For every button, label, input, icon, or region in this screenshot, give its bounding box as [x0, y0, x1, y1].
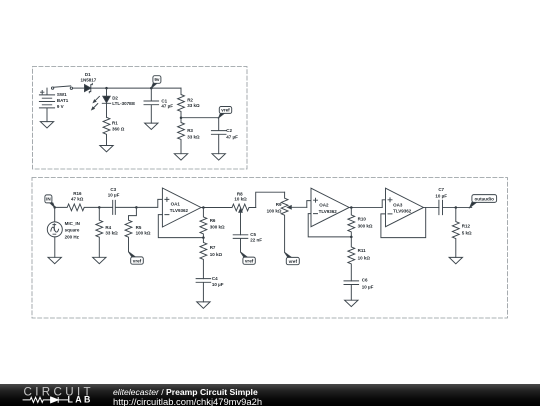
- svg-text:33 kΩ: 33 kΩ: [187, 103, 200, 108]
- svg-text:47 µF: 47 µF: [226, 134, 238, 139]
- potentiometer R9: [281, 192, 307, 252]
- ground (below C6): [345, 300, 358, 306]
- svg-text:10 µF: 10 µF: [212, 282, 224, 287]
- wire D1 to R2 top rail: [91, 87, 181, 89]
- svg-text:9 V: 9 V: [57, 104, 64, 109]
- svg-text:R10: R10: [358, 216, 367, 221]
- net flag vref (below R5): [129, 252, 144, 264]
- svg-text:10 µF: 10 µF: [435, 193, 447, 198]
- svg-text:R9: R9: [276, 202, 282, 207]
- net flag outaudio: [470, 195, 497, 208]
- capacitor C5: [233, 235, 248, 252]
- node junction (out / R12): [455, 206, 458, 209]
- resistor R10: [348, 207, 355, 236]
- node junction (R4 tap): [98, 206, 101, 209]
- dashed enclosure box (power supply section): [33, 67, 248, 170]
- svg-text:OA1: OA1: [171, 202, 181, 207]
- svg-text:C6: C6: [362, 277, 368, 282]
- diode D1 (schottky): [85, 83, 93, 92]
- voltage source MIC_IN: [47, 207, 62, 257]
- svg-text:vref: vref: [221, 108, 230, 113]
- resistor R6: [200, 208, 207, 238]
- net flag vref (below R9): [285, 252, 300, 264]
- resistor R4: [96, 207, 103, 257]
- svg-text:R2: R2: [187, 98, 193, 103]
- svg-text:LTL-307EE: LTL-307EE: [112, 101, 135, 106]
- svg-text:LAB: LAB: [68, 394, 93, 404]
- svg-text:100 kΩ: 100 kΩ: [136, 231, 151, 236]
- wire R8 to R9 top: [256, 192, 285, 207]
- svg-text:33 kΩ: 33 kΩ: [105, 231, 118, 236]
- capacitor C7: [439, 200, 472, 215]
- ground (below R12): [449, 257, 462, 263]
- node junction (OA2 out): [350, 206, 353, 209]
- resistor R3: [178, 118, 185, 154]
- svg-text:300 kΩ: 300 kΩ: [210, 225, 225, 230]
- ground (below C2): [212, 154, 225, 160]
- node junction (R10/R11): [350, 236, 353, 239]
- svg-text:R6: R6: [210, 218, 216, 223]
- svg-text:1N5817: 1N5817: [81, 77, 97, 82]
- svg-text:C7: C7: [438, 187, 444, 192]
- svg-text:100 kΩ: 100 kΩ: [267, 209, 282, 214]
- node junction (C1 / 9v tap): [150, 87, 153, 90]
- resistor R16: [55, 204, 100, 211]
- svg-text:R16: R16: [73, 191, 82, 196]
- svg-text:200 Hz: 200 Hz: [65, 234, 80, 239]
- svg-text:TLV9362: TLV9362: [170, 208, 189, 213]
- wire R9 wiper to OA2 + input: [307, 201, 311, 208]
- net flag IN: [45, 195, 55, 208]
- resistor R12: [452, 207, 459, 257]
- ground (below BAT1): [40, 122, 53, 128]
- resistor R2: [178, 88, 185, 118]
- svg-text:SW1: SW1: [57, 92, 67, 97]
- node junction (LED branch): [105, 87, 108, 90]
- svg-text:vref: vref: [133, 258, 142, 263]
- svg-text:R5: R5: [136, 225, 142, 230]
- svg-text:9v: 9v: [154, 77, 160, 82]
- svg-text:OA3: OA3: [393, 202, 403, 207]
- node junction (IN): [53, 206, 56, 209]
- wire OA1 output: [201, 207, 232, 209]
- svg-text:vref: vref: [245, 259, 254, 264]
- svg-text:vref: vref: [289, 259, 298, 264]
- capacitor C3: [99, 200, 136, 214]
- svg-text:outaudio: outaudio: [474, 196, 494, 201]
- net flag 9v: [151, 76, 161, 88]
- svg-text:47 kΩ: 47 kΩ: [71, 197, 84, 202]
- resistor R11: [348, 237, 355, 281]
- wire OA2 - input feedback: [308, 214, 351, 237]
- svg-text:R3: R3: [187, 128, 193, 133]
- svg-text:MIC_IN: MIC_IN: [65, 221, 80, 226]
- svg-text:BAT1: BAT1: [57, 98, 69, 103]
- svg-text:TLV9362: TLV9362: [393, 209, 412, 214]
- ground (below C1): [145, 123, 158, 129]
- svg-text:R7: R7: [210, 245, 216, 250]
- op-amp OA2: [311, 188, 349, 227]
- resistor R5: [125, 207, 136, 251]
- svg-text:C2: C2: [226, 128, 232, 133]
- ground (below R4): [93, 257, 106, 263]
- ground (below C4): [197, 302, 210, 308]
- svg-text:10 µF: 10 µF: [108, 193, 120, 198]
- svg-text:47 µF: 47 µF: [161, 104, 173, 109]
- svg-text:22 nF: 22 nF: [250, 238, 262, 243]
- svg-text:C3: C3: [110, 187, 116, 192]
- resistor R7: [200, 238, 207, 279]
- net flag vref (top section): [219, 107, 232, 118]
- wire OA3 output: [424, 206, 439, 208]
- svg-text:C4: C4: [212, 276, 218, 281]
- net flag vref (below C5): [241, 252, 256, 264]
- svg-text:10 kΩ: 10 kΩ: [358, 255, 371, 260]
- ground (below R3): [174, 154, 187, 160]
- node junction (OA1 out): [202, 206, 205, 209]
- svg-text:TLV9362: TLV9362: [319, 209, 338, 214]
- svg-text:R1: R1: [112, 120, 118, 125]
- op-amp OA1: [162, 188, 201, 227]
- svg-text:10 µF: 10 µF: [362, 284, 374, 289]
- svg-text:D2: D2: [112, 95, 118, 100]
- node junction (R2/R3/vref): [180, 116, 183, 119]
- wire to OA1 + input: [136, 199, 162, 207]
- svg-text:R11: R11: [358, 248, 367, 253]
- ground (below R1): [100, 146, 113, 152]
- svg-text:33 kΩ: 33 kΩ: [187, 134, 200, 139]
- svg-text:10 kΩ: 10 kΩ: [234, 197, 247, 202]
- wire OA3 - input feedback loop: [381, 207, 426, 237]
- svg-text:C5: C5: [250, 232, 256, 237]
- svg-text:IN: IN: [46, 197, 51, 202]
- ground (below MIC_IN): [48, 257, 61, 263]
- wire OA2 output: [349, 206, 382, 208]
- svg-text:R4: R4: [105, 225, 111, 230]
- potentiometer R8: [232, 204, 256, 235]
- node junction (R5 tap): [135, 206, 138, 209]
- capacitor C6: [344, 281, 359, 300]
- resistor R1: [103, 117, 110, 145]
- svg-text:square: square: [65, 228, 80, 233]
- svg-text:360 Ω: 360 Ω: [112, 126, 125, 131]
- op-amp OA3: [386, 188, 424, 227]
- capacitor C1: [144, 88, 159, 123]
- dashed enclosure box (preamp section): [32, 178, 507, 319]
- battery BAT1: [39, 88, 54, 122]
- node junction (R6/R7): [202, 236, 205, 239]
- svg-text:OA2: OA2: [319, 203, 329, 208]
- wire junction to C2: [181, 117, 219, 119]
- switch SW1: [51, 86, 72, 89]
- capacitor C4: [196, 279, 211, 302]
- LED D2: [92, 88, 111, 117]
- wire OA1 - input feedback: [158, 215, 203, 238]
- svg-text:R12: R12: [462, 224, 471, 229]
- wire SW1 to D1: [73, 87, 85, 89]
- svg-text:5 kΩ: 5 kΩ: [462, 230, 472, 235]
- svg-text:300 kΩ: 300 kΩ: [358, 223, 373, 228]
- svg-text:10 kΩ: 10 kΩ: [210, 252, 223, 257]
- capacitor C2: [211, 118, 226, 154]
- wire OA2 out to OA3 + input: [382, 200, 385, 208]
